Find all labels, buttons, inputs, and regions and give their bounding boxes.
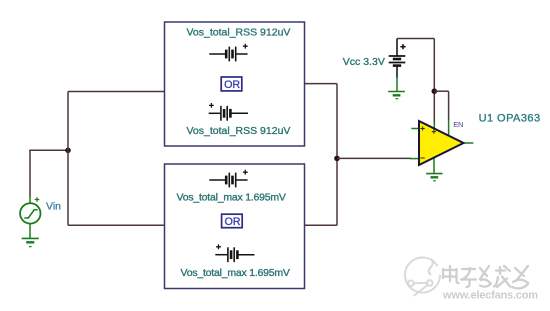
wire branch to EN	[434, 91, 448, 136]
OR label box bottom	[222, 214, 243, 228]
ground under Vin	[22, 238, 39, 246]
pin output stub	[464, 142, 474, 144]
junction node at V+ branch	[432, 88, 438, 94]
svg-text:Vos_total_RSS 912uV: Vos_total_RSS 912uV	[187, 125, 291, 137]
battery V_RSS_1 (plus right)	[209, 44, 247, 62]
wire Vcc top horizontal	[397, 38, 434, 40]
box Vos_total_RSS (top macro)	[165, 22, 305, 146]
battery V_max_2 (plus left)	[215, 244, 254, 262]
voltage source Vin	[20, 197, 40, 223]
svg-text:EN: EN	[453, 120, 463, 129]
ground under Vcc	[388, 92, 405, 99]
wire to top box left	[68, 91, 165, 93]
watermark text dianzifashaoyou	[443, 266, 528, 288]
junction node at input split	[65, 148, 71, 154]
wire Vin top vertical	[29, 150, 31, 203]
wire to bottom box left	[68, 224, 165, 226]
junction node at output merge	[334, 156, 340, 162]
wire Vcc down to op-amp V+	[433, 39, 435, 132]
pin + input stub	[411, 128, 419, 130]
wire left bus vertical	[67, 92, 69, 226]
wire junction to op-amp input	[337, 157, 419, 159]
wire bottom box output	[305, 224, 338, 226]
wire Vin to junction horizontal	[29, 149, 68, 151]
watermark logo elecfans	[405, 258, 440, 296]
box Vos_total_max (bottom macro)	[165, 164, 305, 289]
svg-text:OR: OR	[225, 216, 241, 228]
svg-text:www.elecfans.com: www.elecfans.com	[442, 290, 538, 302]
op-amp U1 triangle	[419, 121, 464, 165]
pin V- to ground	[433, 153, 435, 174]
wire Vin to ground stub	[29, 224, 31, 239]
svg-text:Vos_total_RSS 912uV: Vos_total_RSS 912uV	[187, 27, 291, 39]
svg-text:OR: OR	[224, 79, 240, 91]
svg-text:Vos_total_max 1.695mV: Vos_total_max 1.695mV	[181, 267, 290, 279]
wire Vcc battery to ground	[396, 66, 398, 92]
OR label box top	[221, 77, 242, 91]
wire top box output	[305, 83, 338, 85]
battery Vcc	[389, 39, 406, 66]
svg-text:Vcc 3.3V: Vcc 3.3V	[343, 56, 385, 68]
svg-text:U1 OPA363: U1 OPA363	[479, 113, 541, 125]
ground under op-amp	[426, 174, 442, 181]
battery V_RSS_2 (plus left)	[209, 103, 248, 121]
battery V_max_1 (plus right)	[209, 170, 247, 188]
svg-text:Vos_total_max 1.695mV: Vos_total_max 1.695mV	[177, 191, 286, 203]
svg-text:Vin: Vin	[46, 201, 61, 213]
wire right bus vertical	[336, 84, 338, 226]
